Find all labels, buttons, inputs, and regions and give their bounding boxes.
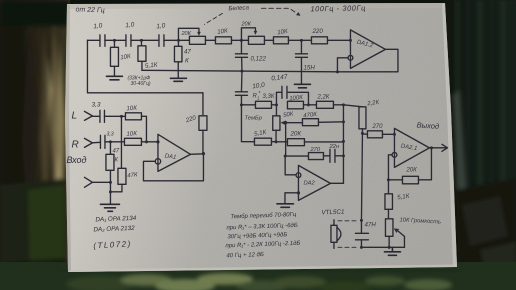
node R-input-arrow (84, 138, 92, 147)
wire rail to volume (361, 133, 362, 220)
wire R row (92, 142, 124, 143)
op-amp DA1.2 (350, 30, 385, 69)
wire feedback to inverting (388, 155, 392, 180)
paper edge shading (65, 3, 457, 272)
capacitor 3,3 (R) (100, 131, 113, 148)
node after 10К (240, 39, 243, 42)
node rail row3 (342, 154, 345, 157)
svg-text:VTL5C1: VTL5C1 (321, 209, 344, 217)
node DA2.1 output (430, 146, 433, 149)
svg-text:220: 220 (311, 28, 323, 35)
node row3 left (284, 155, 287, 158)
svg-text:3,3К: 3,3К (262, 94, 274, 100)
capacitor 0,122 (235, 40, 266, 71)
wire dash link top (338, 220, 359, 222)
svg-text:10К: 10К (277, 28, 289, 36)
node tone bus junction (240, 70, 243, 73)
right dark fabric area (440, 0, 516, 290)
resistor R1* 3,3К (241, 91, 276, 109)
svg-text:от 22 Гц: от 22 Гц (75, 6, 104, 14)
svg-text:10К: 10К (217, 27, 229, 35)
capacitor 0,147 (271, 74, 309, 105)
resistor 470К (302, 112, 343, 126)
wire dashed annotation right (261, 8, 300, 16)
svg-text:20К: 20К (180, 31, 191, 37)
resistor 5,1К (ladder shunt) (138, 40, 159, 70)
node summing junction (145, 140, 148, 143)
potentiometer 10К Громкость (385, 217, 441, 247)
wire (131, 39, 159, 41)
node rail 470К (342, 120, 345, 123)
wire (164, 39, 190, 41)
ground (DA2) (277, 204, 294, 208)
resistor 5,1К (bass) (241, 129, 276, 145)
wire (205, 39, 215, 41)
wire pot bottom (388, 236, 390, 247)
svg-text:DA₁ OPA 2134: DA₁ OPA 2134 (95, 215, 137, 223)
capacitor 1,0 (third) (156, 22, 166, 46)
svg-text:DA₂ OPA 2132: DA₂ OPA 2132 (93, 225, 135, 233)
resistor 220 (DA1 output) (184, 93, 207, 154)
node DA2.1 inverting circle (392, 152, 397, 157)
wire row3 to DA2 (285, 156, 296, 175)
wire DA2 output rail (342, 105, 344, 184)
wire DA1.2 output and feedback (337, 49, 398, 72)
wire feedback bus to ladder (87, 40, 203, 93)
resistor 47К (R bias) (106, 142, 120, 171)
node tone row left (240, 103, 243, 106)
wire (303, 104, 316, 106)
svg-text:К: К (114, 157, 118, 163)
svg-text:DA2: DA2 (303, 180, 315, 186)
wire bottom bus (361, 246, 404, 248)
wire R to op-amp (141, 141, 158, 143)
ground (47К ladder) (170, 78, 186, 81)
wire L row (92, 115, 125, 117)
node ground-input-arrow (84, 177, 92, 187)
svg-text:3,3: 3,3 (91, 101, 100, 108)
wire (105, 39, 126, 41)
op-amp DA2 (298, 165, 330, 200)
node ladder 3 (177, 39, 180, 42)
svg-text:47К: 47К (127, 172, 138, 179)
svg-text:47: 47 (184, 48, 191, 55)
node DA1.2 plus input (349, 39, 352, 42)
node R junction (109, 140, 112, 143)
ground (10К ladder) (106, 76, 122, 80)
svg-text:10К: 10К (126, 105, 137, 113)
wire (231, 39, 248, 41)
svg-text:22н: 22н (328, 144, 339, 150)
svg-text:20К: 20К (240, 21, 251, 27)
svg-text:20К: 20К (289, 130, 301, 137)
node DA1.2 inverting circle (348, 55, 353, 60)
node DA2 plus input (297, 191, 300, 194)
svg-text:100Гц - 300Гц: 100Гц - 300Гц (310, 3, 366, 13)
capacitor 10,0 (235, 71, 265, 105)
svg-text:R: R (71, 139, 78, 150)
resistor 2,2К (to DA2.1) (343, 100, 379, 134)
wire pot bottom (275, 130, 277, 142)
svg-text:270: 270 (309, 147, 320, 153)
capacitor 1,0 (second) (125, 21, 135, 46)
node DA2.1 plus input (393, 133, 396, 136)
resistor 2,2К (tone top) (316, 94, 343, 108)
wire DA1 feedback (143, 153, 203, 181)
left dark soil area (0, 0, 70, 290)
ground (volume) (384, 247, 400, 255)
node L-input-arrow (84, 111, 92, 120)
wire tone bus (142, 70, 338, 72)
svg-text:Вход: Вход (66, 155, 86, 165)
potentiometer 50К (bass) (273, 105, 303, 156)
op-amp DA1 (158, 134, 191, 171)
wire DA2 output (330, 182, 343, 184)
node tone mid (275, 103, 278, 106)
svg-text:К: К (185, 57, 189, 64)
node rail top (342, 103, 345, 106)
svg-text:270: 270 (371, 124, 383, 130)
op-amp DA2.1 (394, 128, 429, 167)
node DA1 plus input (156, 140, 159, 143)
svg-text:1,0: 1,0 (125, 21, 135, 29)
capacitor 47Н (355, 220, 376, 247)
svg-text:5,1К: 5,1К (144, 61, 159, 69)
svg-text:20К: 20К (405, 167, 417, 173)
node bass mid (275, 140, 278, 143)
svg-text:2,2К: 2,2К (316, 94, 329, 100)
svg-text:1,0: 1,0 (93, 22, 103, 30)
wire dash link bottom (338, 246, 357, 248)
wire dashed annotation left (204, 13, 222, 24)
node rail 20К (342, 140, 345, 143)
wire DA2.1 output arrow (429, 144, 447, 151)
svg-text:47: 47 (112, 148, 119, 154)
node DA1.2 feedback junction (336, 70, 339, 73)
potentiometer 20К (second treble) (240, 21, 264, 44)
node DA2.1 input junction (361, 132, 364, 135)
svg-text:1,0: 1,0 (156, 22, 166, 30)
wire L-R join vertical (120, 116, 122, 168)
wire (288, 39, 311, 41)
resistor 10К (R) (124, 130, 141, 145)
resistor 220 (DA1.2 input) (311, 28, 327, 44)
node feedback junction (387, 178, 390, 181)
ground (15Н) (294, 84, 310, 88)
svg-text:15Н: 15Н (303, 64, 315, 71)
node ladder 1 (113, 39, 116, 42)
wire to DA1.2 (327, 39, 350, 41)
resistor 20К (DA2.1 feedback) (388, 148, 431, 184)
resistor 10К (ladder shunt) (110, 40, 131, 75)
wire ground input (92, 181, 110, 183)
resistor 10К (after pot2) (273, 28, 288, 44)
node 47Н bottom (360, 246, 363, 249)
resistor 10К (between pots) (215, 27, 231, 43)
svg-text:*: * (258, 91, 260, 97)
resistor 47К (ladder shunt) (174, 40, 191, 78)
potentiometer 20К (first treble) (178, 28, 205, 44)
svg-text:30-40Гц): 30-40Гц) (130, 81, 150, 87)
wire ladder row (87, 39, 100, 41)
node L junction (120, 115, 123, 118)
capacitor 1,0 (first) (93, 22, 105, 46)
node DA2 inverting circle (296, 173, 301, 178)
svg-text:10К: 10К (126, 130, 137, 138)
wire (264, 39, 273, 41)
resistor 10К (L) (125, 105, 141, 120)
node 47Н top (360, 219, 363, 222)
node after 100К (307, 103, 310, 106)
optocoupler VTL5C1 (331, 220, 341, 249)
wire DA2 plus to ground (285, 193, 299, 203)
svg-text:Выход: Выход (416, 120, 439, 131)
capacitor 15Н (295, 40, 315, 83)
capacitor 3,3 (L) (91, 101, 104, 122)
node pot bottom (388, 246, 391, 249)
svg-text:L: L (71, 110, 77, 121)
paper sheet (65, 3, 457, 272)
node bias junction (109, 190, 112, 193)
paper grain (65, 3, 457, 272)
node DA1 output (202, 152, 205, 155)
node ladder 2 (140, 39, 143, 42)
wire DA1 output (190, 153, 203, 156)
wire bias to ground (109, 170, 111, 204)
resistor 270 (DA2.1 input) (362, 124, 394, 138)
resistor 100К (287, 95, 303, 109)
resistor 5,1К (to volume) (385, 180, 410, 219)
ground (input stage) (100, 204, 119, 211)
svg-text:10К: 10К (120, 53, 132, 61)
svg-text:Белеса: Белеса (228, 4, 250, 12)
svg-text:ТемБр: ТемБр (244, 115, 262, 121)
svg-text:0,122: 0,122 (250, 55, 266, 62)
node input gnd junction (109, 181, 112, 184)
wire L to summing node (141, 116, 146, 141)
wire rail left lower (240, 105, 242, 142)
node DA1 inverting circle (155, 159, 160, 164)
bottom carpet (0, 262, 516, 290)
capacitor 22н (328, 144, 343, 163)
svg-text:47Н: 47Н (364, 221, 376, 228)
resistor 20К (bass) (276, 130, 343, 145)
node before 220 (300, 39, 303, 42)
resistor 47К (second bias) (110, 168, 138, 192)
resistor 270 (row3) (285, 147, 330, 160)
svg-text:3,3: 3,3 (106, 131, 113, 137)
